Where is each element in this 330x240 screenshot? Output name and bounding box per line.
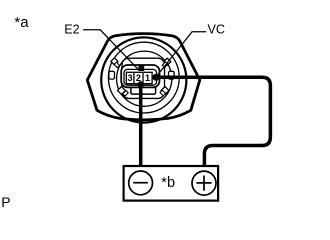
battery negative minus sign	[133, 182, 148, 184]
connector ring outer circle	[117, 51, 172, 106]
sensor inner circle	[108, 42, 179, 113]
terminal dot pin 1 (VC)	[152, 74, 159, 81]
connector housing inner rounded rect	[124, 69, 157, 85]
wire E2 terminal to battery negative	[139, 84, 143, 167]
leader line E2	[83, 30, 139, 71]
ring tooth tail at 7:30	[123, 91, 129, 97]
svg-text:1: 1	[145, 73, 150, 83]
ring tooth tail at 4:30	[160, 90, 166, 96]
pin cell divider 3|2	[133, 72, 135, 83]
leader line VC	[156, 32, 206, 77]
ring side wing left (9 o'clock)	[109, 71, 115, 79]
sensor outer circle	[101, 37, 186, 122]
terminal dot pin 2 (E2)	[137, 81, 144, 88]
battery positive plus sign	[196, 182, 211, 184]
svg-text:VC: VC	[208, 22, 226, 36]
ring tooth tail at 10:30	[114, 62, 119, 68]
connector bottom key tab	[131, 87, 156, 94]
ring tooth diamond at 4:30	[161, 87, 169, 95]
wire VC terminal to battery positive	[156, 77, 271, 165]
ring tooth at 10:30	[111, 58, 118, 65]
battery box	[124, 166, 219, 201]
pin cells frame	[126, 72, 152, 83]
svg-text:3: 3	[128, 73, 133, 83]
black key notch above pin 2	[138, 65, 144, 71]
svg-text:*b: *b	[161, 175, 175, 191]
connector shroud rounded rect	[122, 58, 165, 98]
svg-text:E2: E2	[64, 22, 79, 36]
ring tooth at 1:30	[164, 58, 171, 65]
connector housing outer rounded rect	[121, 65, 159, 87]
pin cell divider 2|1	[142, 72, 144, 83]
svg-text:P: P	[1, 194, 10, 210]
ring side wing right (3 o'clock)	[169, 71, 175, 79]
sensor body hexagon (nut outline)	[87, 34, 200, 120]
battery negative terminal circle	[129, 171, 153, 195]
ring tooth tail at 1:30	[162, 62, 167, 68]
battery positive terminal circle	[192, 171, 216, 195]
svg-text:*a: *a	[14, 14, 29, 31]
ring tooth diamond at 7:30	[118, 87, 126, 95]
